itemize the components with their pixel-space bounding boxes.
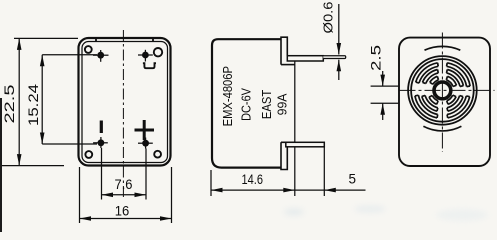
svg-text:16: 16	[115, 204, 130, 219]
dimension 5	[295, 147, 366, 196]
mounting hole top-left	[85, 46, 92, 53]
side view bottom-right post	[281, 142, 295, 169]
sound grille center circle	[434, 82, 451, 99]
side view label text	[221, 66, 289, 126]
crosshair centerlines	[400, 33, 495, 153]
pin dot top-right	[138, 50, 153, 62]
dimension Ø0.6	[321, 2, 342, 81]
buzzer bottom-view inner outline	[82, 39, 168, 163]
vertical centerline left view	[122, 30, 124, 200]
dimension 15.24	[26, 55, 97, 144]
dimension 22.5	[2, 38, 78, 165]
svg-text:15.24: 15.24	[26, 83, 41, 126]
pin dot top-left	[93, 50, 109, 62]
top pin (side view)	[287, 56, 345, 61]
svg-text:99A: 99A	[275, 93, 289, 116]
scan edge strip	[0, 98, 2, 232]
side view body outline	[212, 39, 281, 167]
svg-text:DC-6V: DC-6V	[240, 87, 254, 120]
pin dot bottom-right	[138, 138, 153, 149]
mounting hole bottom-right	[154, 151, 161, 158]
pin dot bottom-left	[93, 137, 108, 148]
plus mark	[135, 120, 155, 140]
side view top-right post	[281, 37, 295, 64]
minus mark	[100, 121, 103, 134]
dimension 16	[80, 167, 172, 223]
dimension 14.6	[211, 170, 295, 196]
svg-text:EMX-4806P: EMX-4806P	[221, 66, 235, 126]
svg-text:5: 5	[349, 172, 357, 187]
svg-text:7.6: 7.6	[115, 177, 133, 192]
svg-text:Ø0.6: Ø0.6	[321, 2, 336, 34]
svg-text:14.6: 14.6	[242, 172, 264, 187]
polarity key mark (open-top bracket)	[143, 63, 156, 68]
dimension 2.5	[369, 45, 400, 120]
bottom pin (side view)	[286, 142, 325, 147]
svg-text:EAST: EAST	[260, 89, 274, 119]
svg-text:2.5: 2.5	[369, 45, 384, 71]
side view right edge	[294, 61, 296, 196]
svg-text:22.5: 22.5	[2, 85, 17, 124]
mounting hole bottom-left	[85, 151, 92, 158]
dimension 7.6	[102, 148, 147, 200]
top view body outline	[399, 38, 490, 166]
scan smudges	[284, 205, 488, 221]
mounting hole top-right	[154, 48, 162, 56]
sound grille concentric slot rings	[408, 46, 477, 131]
buzzer bottom-view outer outline	[79, 38, 171, 166]
